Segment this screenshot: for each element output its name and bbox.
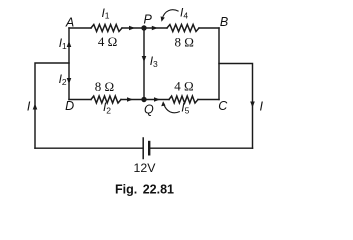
arrow on bottom wire before Q — [127, 97, 133, 102]
resistor R4 4ohm zigzag — [169, 96, 198, 103]
arrow I2 down on left inner wire — [67, 78, 72, 84]
svg-text:I: I — [27, 99, 31, 113]
arrow on top wire before P — [129, 26, 135, 31]
arrow I1 up on left inner wire — [67, 41, 72, 47]
svg-text:4 Ω: 4 Ω — [174, 79, 193, 94]
svg-text:C: C — [218, 99, 228, 113]
arrow on bottom wire after Q — [154, 97, 160, 102]
node Q dot — [141, 97, 146, 102]
resistor R3 8ohm zigzag — [91, 96, 121, 103]
wire R2 to B — [199, 27, 219, 29]
wire P to R2 — [144, 27, 167, 29]
arrow I up on left outer wire — [33, 104, 38, 110]
wire Q to R4 — [144, 99, 169, 101]
svg-text:5: 5 — [185, 106, 190, 116]
wire left inner A to D — [68, 28, 70, 100]
svg-text:12V: 12V — [134, 161, 157, 175]
svg-text:D: D — [65, 99, 74, 113]
arrow I3 down on middle wire — [142, 56, 147, 62]
svg-text:I: I — [259, 99, 263, 113]
wire right inner B to C — [218, 28, 220, 100]
wire R4 to C — [198, 99, 219, 101]
wire bottom D to R3 — [69, 99, 91, 101]
svg-text:2: 2 — [62, 77, 67, 87]
wire battery to bottom right — [150, 147, 253, 149]
curved arrow for I4 — [162, 10, 178, 19]
svg-text:B: B — [220, 15, 228, 29]
svg-text:Q: Q — [144, 103, 154, 117]
battery long plate — [142, 138, 144, 159]
curved arrow for I5 — [164, 105, 180, 113]
wire R1 to P — [122, 27, 144, 29]
wire bottom left to battery — [35, 147, 142, 149]
battery short plate — [148, 142, 150, 154]
svg-text:1: 1 — [62, 41, 67, 51]
arrow I down on right outer wire — [250, 102, 255, 108]
svg-text:P: P — [144, 13, 153, 27]
svg-text:4: 4 — [183, 10, 188, 20]
arrowhead of I4 curved arrow — [161, 16, 165, 21]
svg-text:4 Ω: 4 Ω — [98, 34, 117, 49]
svg-text:2: 2 — [106, 105, 111, 115]
wire middle P to Q — [143, 28, 145, 100]
node P dot — [141, 25, 146, 30]
resistor R2 8ohm zigzag — [167, 25, 199, 32]
arrow on top wire after P — [152, 26, 158, 31]
wire right connector — [219, 64, 253, 149]
svg-text:A: A — [65, 15, 74, 29]
wire left connector — [35, 63, 69, 148]
svg-text:8 Ω: 8 Ω — [95, 79, 114, 94]
wire R3 to Q — [121, 99, 144, 101]
wire top A to R1 — [69, 27, 91, 29]
svg-text:8 Ω: 8 Ω — [174, 35, 193, 50]
resistor R1 4ohm zigzag — [91, 25, 122, 32]
svg-text:1: 1 — [105, 11, 110, 21]
arrowhead of I5 curved arrow — [161, 101, 165, 106]
svg-text:3: 3 — [153, 59, 158, 69]
svg-text:Fig. 22.81: Fig. 22.81 — [115, 183, 174, 197]
